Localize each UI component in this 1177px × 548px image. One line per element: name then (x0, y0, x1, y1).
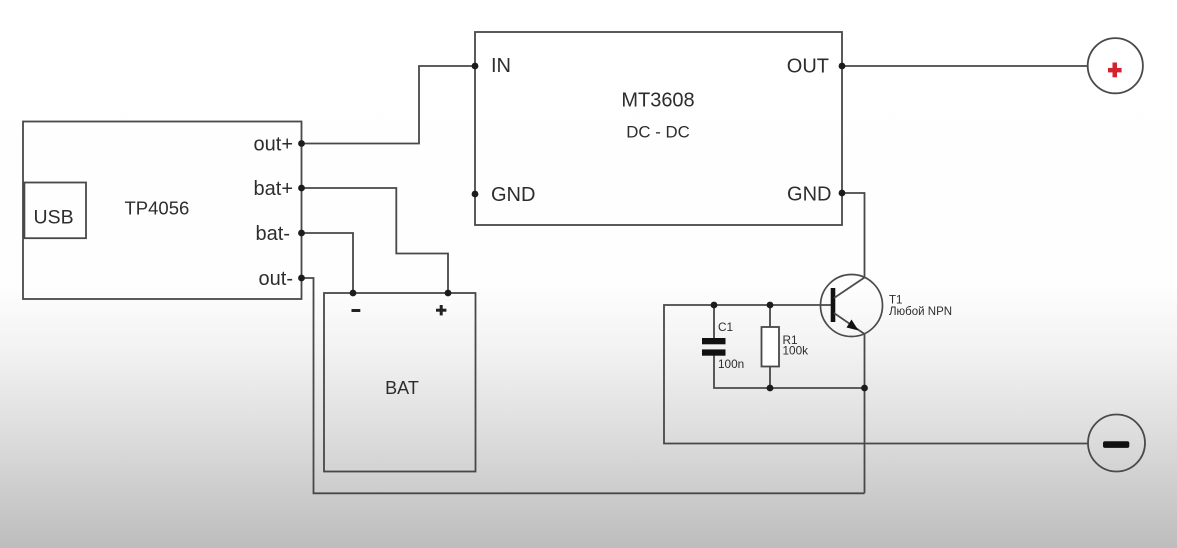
svg-text:IN: IN (491, 55, 511, 77)
svg-text:bat+: bat+ (254, 178, 293, 200)
svg-text:out-: out- (259, 268, 293, 290)
svg-text:Любой NPN: Любой NPN (889, 306, 952, 318)
svg-text:DC - DC: DC - DC (626, 123, 689, 142)
svg-text:GND: GND (491, 184, 535, 206)
svg-text:BAT: BAT (385, 378, 419, 398)
svg-text:100k: 100k (783, 344, 809, 358)
svg-text:OUT: OUT (787, 55, 829, 77)
svg-text:GND: GND (787, 184, 831, 206)
svg-text:T1: T1 (889, 295, 902, 307)
svg-text:C1: C1 (718, 320, 733, 334)
svg-text:USB: USB (34, 207, 74, 229)
svg-text:TP4056: TP4056 (125, 198, 190, 219)
svg-text:100n: 100n (718, 357, 744, 371)
svg-text:out+: out+ (254, 134, 293, 156)
svg-text:bat-: bat- (256, 223, 290, 245)
svg-text:MT3608: MT3608 (621, 90, 694, 112)
